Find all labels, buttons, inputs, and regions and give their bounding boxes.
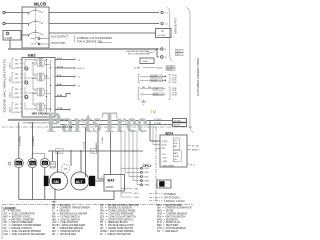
- neutral connector box left: [3, 31, 21, 41]
- receptacle R4: [37, 103, 44, 111]
- stacked label boxes: [173, 119, 187, 123]
- label box C13: [56, 149, 64, 154]
- svg-text:TB = TERMINAL BLOCK: TB = TERMINAL BLOCK: [100, 221, 128, 224]
- CPC1 pin labels: [144, 168, 150, 187]
- sender FS2: [28, 158, 37, 167]
- spare terminal circle: [8, 162, 11, 165]
- MLCB pole 2 arc: [29, 21, 43, 24]
- terminal circle line 2 left: [3, 22, 5, 24]
- wire drop FS1: [18, 122, 20, 159]
- svg-text:0 PNK: 0 PNK: [144, 168, 150, 170]
- svg-text:3ø ONLY: 3ø ONLY: [158, 35, 167, 37]
- hatched resistor block: [52, 151, 54, 161]
- svg-text:G: G: [165, 57, 167, 59]
- svg-text:EM = 2 STAGE SWITCH: EM = 2 STAGE SWITCH: [52, 215, 80, 218]
- row leader pins: [20, 59, 23, 61]
- svg-text:LOP = FUEL SHUTOFF: LOP = FUEL SHUTOFF: [52, 222, 79, 224]
- svg-text:NYD 6: NYD 6: [78, 68, 85, 70]
- junction neutral: [156, 48, 157, 49]
- connector group rows 74-83: [139, 75, 141, 83]
- svg-text:BC = BATTERY CHARGER: BC = BATTERY CHARGER: [4, 218, 35, 221]
- svg-text:COM: COM: [14, 82, 19, 84]
- svg-text:SM: SM: [53, 180, 58, 184]
- ALT right tab: [89, 176, 95, 186]
- receptacle stubs y58.5: [34, 60, 36, 62]
- sender FS1: [14, 158, 23, 167]
- svg-text:4B BLK: 4B BLK: [174, 125, 181, 127]
- svg-text:C13: C13: [174, 140, 177, 142]
- panel exit wire 5: [55, 94, 70, 97]
- svg-text:OS = ENGINE OIL SENSOR: OS = ENGINE OIL SENSOR: [100, 208, 132, 210]
- svg-text:0 WHT: 0 WHT: [144, 181, 150, 183]
- svg-text:VR = VOLTAGE REGULATOR: VR = VOLTAGE REGULATOR: [100, 224, 134, 227]
- svg-text:NB = PRESSURE SENSOR: NB = PRESSURE SENSOR: [52, 228, 83, 230]
- svg-text:(2 AWG): (2 AWG): [95, 142, 98, 150]
- svg-text:MAG = MAGNETO: MAG = MAGNETO: [157, 218, 178, 221]
- svg-text:HM = LOW OIL SWITCH: HM = LOW OIL SWITCH: [52, 219, 80, 221]
- CPC1 pin stubs: [121, 168, 141, 185]
- breaker CB3: [25, 95, 28, 98]
- svg-text:+ (4V): + (4V): [162, 157, 167, 159]
- labels right of N: [176, 49, 184, 52]
- CT dashed circle: [61, 164, 70, 173]
- wires into BCH: [150, 140, 160, 142]
- svg-text:REC = RECTIFIER: REC = RECTIFIER: [157, 225, 178, 227]
- svg-text:0 GRN: 0 GRN: [144, 185, 150, 187]
- legend column 1: [4, 210, 47, 236]
- svg-text:FS1 = FUEL SOLENOID PRIMARY: FS1 = FUEL SOLENOID PRIMARY: [4, 230, 42, 233]
- svg-text:NO. 2: NO. 2: [190, 164, 195, 166]
- svg-text:PNL = DOME CONSOLE PANEL: PNL = DOME CONSOLE PANEL: [100, 210, 136, 213]
- svg-text:IF DC DISTRIBUTION: IF DC DISTRIBUTION: [128, 53, 150, 55]
- top bus generator: [48, 150, 143, 152]
- svg-text:XFMR = MAIN XFMR WINDING: XFMR = MAIN XFMR WINDING: [100, 230, 134, 233]
- panel exit wire 6: [55, 109, 70, 111]
- pointer grounded neutral: [148, 50, 157, 53]
- legend column 2: [52, 204, 90, 236]
- svg-text:120 V: 120 V: [10, 91, 12, 97]
- svg-text:GENERATOR SET: GENERATOR SET: [52, 125, 74, 129]
- panel exit wire 1: [55, 59, 75, 61]
- svg-text:J2 4D: J2 4D: [172, 82, 177, 84]
- svg-text:N = NEUTRAL: N = NEUTRAL: [4, 210, 22, 213]
- svg-text:J4 NB: J4 NB: [134, 67, 140, 69]
- svg-text:MLCB: MLCB: [34, 2, 46, 7]
- battery BAT: [104, 175, 125, 192]
- svg-text:EC = ENGINE CONTROL: EC = ENGINE CONTROL: [4, 228, 33, 230]
- breaker CB2: [25, 81, 28, 84]
- svg-text:STR = STATOR WINDING: STR = STATOR WINDING: [157, 227, 186, 230]
- svg-text:ALT = AC/DC ALTERNATOR: ALT = AC/DC ALTERNATOR: [4, 213, 35, 216]
- terminal N right: [161, 48, 163, 50]
- svg-text:240 V: 240 V: [10, 76, 12, 82]
- battery cable drop 2: [97, 128, 99, 180]
- svg-text:C13 +: C13 +: [162, 154, 167, 156]
- svg-text:EB = CURRENT TRANSFORMER: EB = CURRENT TRANSFORMER: [52, 207, 90, 210]
- svg-text:BATT: BATT: [174, 152, 178, 155]
- SM left tab: [44, 176, 49, 186]
- svg-text:4Q N: 4Q N: [176, 51, 181, 53]
- svg-text:CB = CIRCUIT BREAKER: CB = CIRCUIT BREAKER: [4, 221, 33, 224]
- bracket group 4: [12, 103, 14, 114]
- svg-text:FS1: FS1: [16, 161, 22, 165]
- svg-text:N 5B2: N 5B2: [157, 68, 163, 70]
- svg-text:J1 (4Q): J1 (4Q): [154, 119, 162, 121]
- svg-text:SM = STARTER ALTERNATOR: SM = STARTER ALTERNATOR: [157, 207, 192, 210]
- svg-text:RLY = LOW FUEL PRESSURE: RLY = LOW FUEL PRESSURE: [100, 214, 134, 216]
- wire L1 in: [5, 12, 28, 14]
- svg-text:16 RED: 16 RED: [151, 76, 158, 78]
- wire L3 out: [49, 32, 156, 34]
- small gnd symbol mid: [141, 100, 145, 105]
- wire L1 out: [49, 12, 157, 14]
- svg-text:4B BLK: 4B BLK: [167, 69, 174, 71]
- svg-text:PLG = SPARK PLUG: PLG = SPARK PLUG: [157, 221, 181, 224]
- svg-text:Z1 = SURGE PROTECTOR: Z1 = SURGE PROTECTOR: [100, 234, 131, 236]
- MLCB pole 1 arc: [29, 10, 43, 13]
- svg-text:0 (16AWG): 0 (16AWG): [18, 136, 21, 146]
- wire neutral box to bus: [9, 40, 11, 49]
- svg-text:A10L: A10L: [57, 57, 63, 60]
- svg-text:4Q RED: 4Q RED: [174, 120, 182, 122]
- distribution panel box: [22, 58, 55, 118]
- bracket group 2: [12, 73, 14, 84]
- svg-text:CHGR: CHGR: [174, 156, 180, 158]
- wire jog to EC: [32, 154, 44, 159]
- svg-text:COM: COM: [14, 112, 19, 114]
- bracket group 1: [12, 58, 14, 69]
- sender EC: [40, 158, 49, 167]
- panel exit wire 2: [55, 67, 75, 69]
- wire GND: [156, 49, 158, 57]
- brace internal aux: [74, 35, 75, 43]
- svg-text:120/240 VAC MAIN OUTPUTS: 120/240 VAC MAIN OUTPUTS: [3, 59, 7, 113]
- receptacle R1: [37, 59, 44, 67]
- legend column 3: [100, 204, 139, 236]
- svg-text:120 V: 120 V: [10, 106, 12, 112]
- svg-text:A WHT 1: A WHT 1: [192, 148, 200, 151]
- wire EC to resistor dashed: [48, 163, 51, 165]
- svg-text:SW = START STOP SWITCH: SW = START STOP SWITCH: [100, 218, 133, 221]
- svg-text:0 (16AWG): 0 (16AWG): [32, 136, 35, 146]
- svg-text:PartsTree: PartsTree: [47, 107, 148, 139]
- svg-text:CT: CT: [64, 167, 68, 171]
- terminal L1 right: [161, 11, 163, 13]
- svg-text:BAT = BATTERY 12VDC: BAT = BATTERY 12VDC: [4, 215, 31, 218]
- wire L2 out: [49, 23, 157, 25]
- alternator ALT: [71, 172, 89, 190]
- MLCB trip linkage dashed line: [35, 9, 37, 42]
- svg-text:EB2: EB2: [28, 53, 37, 58]
- svg-text:0 BLK: 0 BLK: [144, 176, 150, 178]
- receptacle R2: [37, 73, 44, 81]
- svg-text:NO. 4B: NO. 4B: [192, 146, 199, 148]
- dash-dot boundary top: [2, 126, 50, 128]
- svg-text:0 YEL: 0 YEL: [134, 189, 139, 191]
- lower panel bus bar: [8, 119, 68, 121]
- battery cable drop 1: [85, 128, 87, 178]
- panel exit wire 3: [55, 76, 75, 78]
- svg-text:12VDC: 12VDC: [106, 185, 114, 189]
- label box C3: [91, 149, 97, 154]
- MLCB aux contact row: [31, 37, 38, 39]
- terminal GND right: [161, 56, 164, 59]
- svg-text:TD = TIME DELAY: TD = TIME DELAY: [157, 230, 179, 233]
- svg-text:ALT: ALT: [76, 180, 84, 184]
- brace main output: [167, 8, 173, 62]
- svg-text:COM: COM: [14, 97, 19, 99]
- svg-text:BHD = DIODE: BHD = DIODE: [157, 211, 174, 213]
- svg-text:MLCB = MAIN LINE BREAKER: MLCB = MAIN LINE BREAKER: [52, 224, 86, 227]
- connector group rows 87-99: [139, 87, 141, 100]
- svg-text:120VAC LOAD: 120VAC LOAD: [164, 199, 185, 203]
- bracket group 3: [12, 88, 14, 99]
- BCH outputs right: [187, 145, 191, 147]
- BCH sub-box 1: [173, 138, 180, 150]
- svg-text:N (4L): N (4L): [162, 145, 167, 147]
- svg-text:FOR ALTERNATE USE: FOR ALTERNATE USE: [77, 41, 102, 44]
- BCH sub-box 2: [173, 151, 181, 162]
- svg-text:60Hz: 60Hz: [143, 61, 148, 63]
- wire ALT to BAT: [95, 180, 104, 182]
- receptacle stubs y103: [34, 104, 36, 106]
- ground wire bottom: [54, 190, 56, 200]
- svg-text:IGN = IGNITION SWITCH: IGN = IGNITION SWITCH: [157, 216, 186, 218]
- svg-text:A-00: A-00: [57, 74, 62, 77]
- MLCB pole 3 arc: [29, 32, 43, 35]
- svg-text:J4 (4B): J4 (4B): [154, 123, 161, 125]
- svg-text:CT = CURRENT TRANSFORMER: CT = CURRENT TRANSFORMER: [4, 224, 42, 227]
- dash-dot boundary right: [155, 127, 157, 205]
- legend border: [1, 206, 3, 240]
- svg-text:BAT: BAT: [108, 179, 116, 183]
- svg-text:BAT: BAT: [174, 145, 177, 148]
- svg-text:GM02 GUM02: GM02 GUM02: [163, 165, 175, 167]
- wires below senders: [18, 168, 20, 200]
- terminal L2 right: [161, 22, 163, 24]
- svg-text:0 RED: 0 RED: [144, 172, 150, 174]
- MLCB shunt trip row: [31, 42, 38, 44]
- junction dots panel: [32, 62, 33, 63]
- svg-text:COM: COM: [14, 67, 19, 69]
- brace customer connections tall: [186, 8, 194, 133]
- svg-text:J2 4H: J2 4H: [172, 95, 177, 97]
- legend column 4: [157, 204, 192, 233]
- svg-text:GB = ENGINE BLOCK HEATER: GB = ENGINE BLOCK HEATER: [52, 213, 88, 216]
- svg-text:0 BLU: 0 BLU: [134, 193, 140, 195]
- svg-text:FS2 = FUEL SOLENOID SECONDAR: FS2 = FUEL SOLENOID SECONDARY: [4, 233, 47, 236]
- svg-text:0 GRY: 0 GRY: [134, 197, 140, 199]
- svg-text:16 BLK: 16 BLK: [151, 80, 158, 82]
- svg-text:CN = WATER CONTROL MODULE: CN = WATER CONTROL MODULE: [100, 204, 139, 207]
- panel internal bus A: [46, 60, 48, 113]
- BCH pin rows left: [162, 141, 175, 167]
- svg-text:N GND: N GND: [5, 37, 13, 40]
- svg-text:COM: COM: [154, 94, 159, 96]
- leader after aux note: [99, 42, 113, 44]
- svg-text:A1 B4: A1 B4: [57, 65, 64, 68]
- CPC1 lower stubs: [121, 168, 132, 197]
- svg-text:GB = OIL PACK: GB = OIL PACK: [52, 204, 71, 207]
- svg-text:− (4W): − (4W): [162, 161, 168, 163]
- receptacle stubs y73: [34, 74, 36, 76]
- starter motor SM: [50, 172, 68, 190]
- svg-text:FS2: FS2: [29, 161, 35, 165]
- ground lug box: [140, 58, 154, 64]
- breaker MLCB box: [22, 7, 49, 48]
- svg-text:A-NB: A-NB: [57, 94, 63, 97]
- svg-text:J7 (4Q): J7 (4Q): [162, 141, 168, 143]
- svg-text:4B G: 4B G: [176, 54, 181, 56]
- svg-text:MAIN OUTPUT: MAIN OUTPUT: [175, 17, 178, 34]
- svg-text:SHUNT TRIP: SHUNT TRIP: [51, 42, 66, 45]
- battery charger box BCH: [160, 135, 187, 167]
- svg-text:WT = WATER TEMP SWITCH: WT = WATER TEMP SWITCH: [100, 227, 134, 230]
- svg-text:SOL = LOW COOLANT SWITCH: SOL = LOW COOLANT SWITCH: [100, 215, 136, 218]
- box L3 3phase only: [156, 29, 172, 38]
- dash-dot boundary bottom: [2, 204, 193, 206]
- terminal circle line 1 left: [3, 11, 5, 13]
- IN box: [157, 180, 171, 188]
- junction dots bus: [124, 150, 125, 151]
- svg-text:240 V: 240 V: [10, 62, 12, 68]
- svg-text:TM: TM: [150, 110, 157, 115]
- svg-text:A-A0: A-A0: [57, 83, 63, 86]
- svg-text:POL = RELAY BOARD: POL = RELAY BOARD: [157, 204, 182, 207]
- svg-text:LEGEND: LEGEND: [4, 206, 16, 210]
- svg-text:AUX CONTACT: AUX CONTACT: [51, 36, 68, 39]
- svg-text:CHG = CHARGE WINDING: CHG = CHARGE WINDING: [157, 213, 187, 216]
- CPC1 pin circles: [141, 167, 143, 169]
- battery cable drop 3: [110, 128, 112, 175]
- J1 J4 rows: [60, 120, 172, 122]
- dash-dot legend marks: [149, 193, 163, 195]
- receptacle stubs y88: [34, 89, 36, 91]
- svg-text:G = GROUND: G = GROUND: [52, 211, 70, 213]
- wires into SM ALT: [57, 151, 59, 173]
- breaker CB1: [25, 67, 28, 70]
- svg-text:13 (4-0): 13 (4-0): [84, 142, 86, 149]
- panel internal wires: [25, 59, 37, 61]
- panel exit wire 4: [55, 85, 75, 87]
- svg-text:CUSTOMER CONNECTIONS: CUSTOMER CONNECTIONS: [197, 58, 200, 96]
- connector CPC1 wires: [121, 130, 137, 185]
- wire neutral to MLCB: [21, 34, 29, 36]
- ground symbol: [52, 200, 57, 205]
- neutral bus bar: [8, 48, 157, 50]
- svg-text:SM = STARTER MOTOR: SM = STARTER MOTOR: [52, 230, 80, 233]
- wire L2 in: [5, 23, 28, 25]
- panel internal bus B: [49, 60, 51, 113]
- svg-text:VR = VOLTAGE REG: VR = VOLTAGE REG: [52, 233, 76, 236]
- wire drop FS2: [31, 122, 33, 159]
- receptacle R3: [37, 88, 44, 96]
